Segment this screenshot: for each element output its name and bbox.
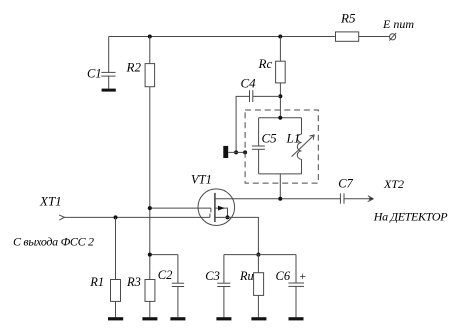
capacitor C5 — [258, 118, 260, 146]
wire C7 to XT2 — [344, 198, 373, 200]
transistor VT1 (dual-gate MOSFET) — [198, 189, 235, 226]
svg-text:Rc: Rc — [258, 56, 273, 71]
node R3-C2 junction — [148, 253, 152, 257]
svg-text:VT1: VT1 — [191, 172, 212, 186]
shield box (dashed) around tank — [245, 110, 318, 183]
terminal XT2 output arrow — [368, 196, 374, 202]
resistor R5 — [336, 32, 359, 41]
ground under C6 — [289, 317, 304, 320]
wire tank bottom to drain line — [279, 174, 281, 199]
resistor R3 — [145, 280, 155, 302]
wire chassis to shield — [228, 151, 245, 153]
svg-text:C7: C7 — [338, 177, 353, 191]
node substrate-source junction — [226, 215, 230, 219]
ground under C1 — [102, 89, 116, 92]
svg-text:C6: C6 — [276, 269, 291, 283]
wire rail to R2 — [149, 37, 151, 64]
svg-text:C1: C1 — [87, 66, 102, 80]
svg-text:Rи: Rи — [239, 269, 254, 283]
capacitor C4 — [249, 90, 251, 102]
resistor R2 — [145, 64, 155, 87]
svg-text:C2: C2 — [158, 268, 173, 282]
L1 adjustment arrow — [292, 135, 315, 157]
wire top supply rail — [109, 36, 335, 38]
wire bottom node C3 to C6 — [224, 254, 296, 256]
capacitor C3 — [223, 255, 225, 284]
wire gate-2 lead — [150, 207, 211, 209]
wire C4 right to Rc line — [253, 95, 281, 97]
node XT1-R1 junction — [114, 215, 118, 219]
node rail-Rc junction — [278, 35, 282, 39]
wire tank rectangle bottom — [259, 173, 302, 175]
wire R2 bottom down to R3 top (gate-2 bias line) — [149, 87, 151, 280]
svg-text:R1: R1 — [89, 275, 104, 289]
ground under C3 — [216, 317, 231, 320]
terminal XT1 input arrow — [59, 215, 64, 220]
ground under C2 — [170, 317, 185, 320]
wire gate-2 bias to C2 branch — [150, 254, 178, 256]
capacitor C7 — [339, 193, 341, 203]
ground under R3 — [142, 317, 157, 320]
capacitor C2 — [177, 255, 179, 284]
svg-text:XT1: XT1 — [39, 193, 62, 208]
node Rc-C4 junction — [278, 94, 282, 98]
gate 1 bar — [209, 214, 211, 218]
svg-text:C5: C5 — [262, 131, 278, 146]
svg-text:XT2: XT2 — [383, 177, 404, 191]
svg-text:L1: L1 — [286, 131, 301, 146]
node gate-2 bias junction — [148, 206, 152, 210]
node rail-R2 junction — [148, 35, 152, 39]
svg-text:R3: R3 — [126, 275, 141, 289]
resistor Ru — [257, 255, 259, 273]
svg-text:+: + — [299, 271, 307, 283]
wire rail to Rc — [279, 37, 281, 62]
inductor L1 — [301, 118, 303, 134]
node source-bottom junction — [256, 253, 260, 257]
wire source lead down to bottom node — [215, 217, 259, 254]
svg-text:E пит: E пит — [382, 17, 414, 31]
wire C4 left down to chassis — [236, 96, 249, 152]
capacitor C1 — [108, 37, 110, 73]
svg-text:На ДЕТЕКТОР: На ДЕТЕКТОР — [373, 209, 448, 223]
wire XT1 to gate 1 — [64, 216, 210, 218]
node drain-tank junction — [278, 197, 282, 201]
ground under R1 — [108, 317, 123, 320]
chassis ground (left-pointing) — [223, 146, 228, 158]
substrate lead with arrow — [215, 208, 228, 217]
svg-text:C3: C3 — [205, 269, 220, 283]
gate 2 bar — [210, 208, 212, 212]
svg-text:C4: C4 — [241, 76, 257, 91]
wire Rc to tank top — [279, 83, 281, 118]
wire tank rectangle top — [259, 117, 302, 119]
capacitor C6 (electrolytic) — [295, 255, 297, 283]
resistor R1 — [115, 217, 117, 279]
node shield junction — [243, 150, 247, 154]
svg-text:R5: R5 — [340, 11, 356, 26]
node C4-chassis junction — [234, 150, 238, 154]
wire R5 to E terminal — [359, 36, 390, 38]
resistor Rc — [276, 61, 286, 83]
terminal E pit — [390, 34, 396, 40]
wire drain line to C7 — [215, 198, 341, 200]
svg-text:С выхода ФСС 2: С выхода ФСС 2 — [13, 235, 94, 249]
node tank top junction — [278, 116, 282, 120]
svg-text:R2: R2 — [126, 60, 142, 75]
ground under Ru — [251, 317, 266, 320]
